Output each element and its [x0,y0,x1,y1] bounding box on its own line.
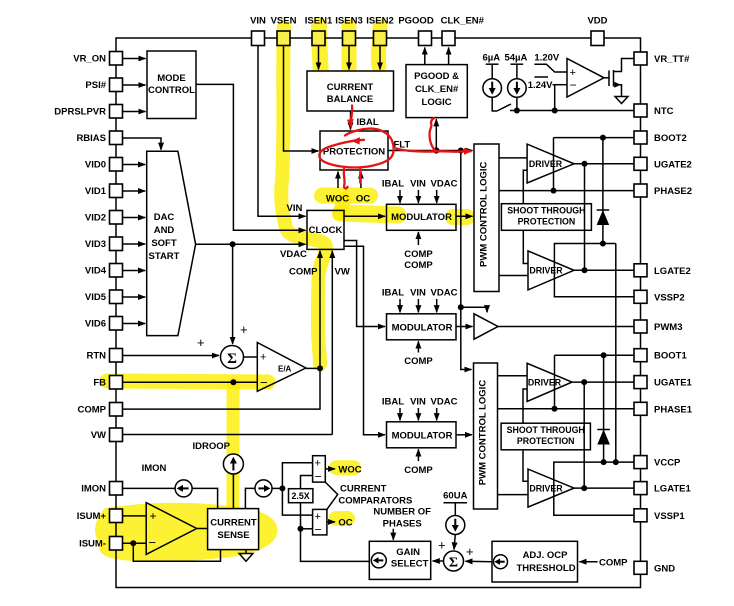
svg-text:+: + [150,509,157,523]
svg-text:NUMBER OF: NUMBER OF [373,507,431,518]
svg-text:ISEN2: ISEN2 [366,15,393,26]
highlight ISEN1 [319,26,321,78]
highlight WOC OC upper labels [322,188,370,204]
wire idroop to current sense box [232,474,234,509]
wire op-amp to current sense box [197,528,208,530]
wire boot2 vertical to phase2 [553,138,555,191]
svg-text:DRIVER: DRIVER [528,377,562,387]
op-amp triangle current sense [146,503,197,555]
COMPARATOR-SECTION [289,456,598,582]
junction phase1 [552,406,558,412]
pin BOOT2 [634,131,647,144]
label PGOOD CLK_EN LOGIC [414,71,459,108]
svg-text:+: + [240,322,248,337]
svg-text:PHASES: PHASES [383,519,422,530]
comparator2 box [313,509,327,535]
svg-text:DPRSLPVR: DPRSLPVR [54,107,106,118]
wire UGATE2 [574,163,634,165]
wire pwmcl2 to driver3 [498,375,528,377]
junction 54uA on NTC line [514,108,520,114]
svg-text:WOC: WOC [338,465,361,476]
svg-text:ISUM+: ISUM+ [77,511,107,522]
pin VID6 [110,317,123,331]
pin BOOT1 [634,349,647,362]
wire chain to comparator2 minus [301,528,313,530]
svg-text:PGOOD: PGOOD [398,15,434,26]
pwm3 buffer triangle [474,314,498,339]
wire COMP into modulator2 bottom [417,341,419,352]
6uA source circle [483,79,502,98]
CLOCK-AND-MODULATORS [307,190,473,461]
wire PSI# to mode control [123,84,146,86]
svg-text:DRIVER: DRIVER [529,483,563,493]
wire FLT up into pgood logic [435,119,437,150]
wire pwmcl1 to driver2 [499,275,528,277]
wire VID2 to dac [123,217,146,219]
highlight OC lower label [336,511,348,526]
svg-text:CURRENT: CURRENT [210,518,257,529]
svg-text:IBAL: IBAL [357,117,379,128]
junction comparator node [279,485,285,491]
PIN-LABELS-RIGHT [654,54,693,574]
shoot through protection2 box [501,423,590,450]
junction vccp riser [613,459,619,465]
switch blade [497,104,511,111]
svg-text:GAIN: GAIN [396,547,420,558]
wire VDAC down to sigma [232,244,234,344]
wire PHASE2 [499,190,634,192]
6uA source arrow [491,82,493,89]
brace current comparators [325,482,337,509]
gain select circle arrow [378,559,384,561]
wire current sense out up [245,488,255,508]
wire LGATE2 [574,269,634,271]
svg-text:ADJ. OCP: ADJ. OCP [523,550,569,561]
pin PHASE2 [634,184,647,197]
labels IBAL VIN VDAC row3 [382,397,458,408]
60UA source arrow [454,519,456,526]
adj ocp threshold box [492,541,578,582]
pin RBIAS [110,131,123,145]
svg-text:VR_TT#: VR_TT# [654,54,690,65]
svg-text:PWM CONTROL LOGIC: PWM CONTROL LOGIC [479,161,490,267]
PINS-TOP [252,31,605,46]
pin FB [110,376,123,390]
svg-text:−: − [315,523,322,537]
mosfet source arrow [614,82,621,88]
wire FLT line protection to pwm control logic [388,150,473,152]
pin VID4 [110,264,123,278]
wire imon into current sense top [192,488,218,508]
adj ocp circle [494,555,508,569]
wire COMP into modulator1 bottom [417,232,419,245]
wire shoot through1 to driver2 [523,230,528,263]
mosfet channel bar [613,70,615,87]
svg-text:1.20V: 1.20V [534,53,559,64]
label COMP COMP under modulator1 [404,249,433,271]
svg-text:AND: AND [154,225,175,236]
svg-text:COMP: COMP [599,558,628,569]
pin LGATE2 [634,264,647,277]
svg-text:IMON: IMON [81,484,106,495]
ground triangle vrtt [615,97,628,104]
pin PGOOD [419,31,432,46]
wire pgood logic to CLK_EN# pin [448,48,450,65]
wire comparator1 out to WOC [325,468,335,470]
wire mode control to clock [196,84,306,230]
pin GND [634,561,647,574]
pin VID2 [110,211,123,225]
comparator1 box [313,456,326,482]
pin ISUM+ [110,509,123,523]
wire LGATE1 [574,487,634,489]
diode1 symbol [597,210,610,225]
svg-text:BOOT1: BOOT1 [654,351,687,362]
svg-text:VID6: VID6 [85,319,106,330]
6uA top bar [486,63,499,65]
sigma2 circle [444,551,464,571]
junction FLT pgood branch [433,147,439,153]
wire ISUM- feedback loop [133,543,220,561]
svg-text:COMP: COMP [404,260,433,271]
diode1 vertical wire [602,138,604,244]
ground stub current sense [245,550,247,554]
buffer source circle [255,480,272,497]
junction e/a output [317,365,323,371]
svg-text:THRESHOLD: THRESHOLD [516,563,575,574]
clock box [307,210,344,249]
wire e/a output [306,367,320,369]
svg-text:COMP: COMP [404,249,433,260]
highlight ISEN3 [342,26,357,74]
mosfet gate wire [604,77,609,79]
junction phase2 [551,188,557,194]
6uA stem [491,64,493,79]
wire sigma2 to gain select [433,560,444,562]
svg-text:IDROOP: IDROOP [193,441,231,452]
svg-text:+: + [315,458,321,470]
RED-LAYER [319,106,470,189]
pin ISEN1 [312,31,325,46]
mosfet gate bar [608,71,610,87]
label SHOOT THROUGH PROTECTION 2 [507,425,585,446]
svg-text:LGATE1: LGATE1 [654,484,691,495]
pin VSEN [277,31,290,46]
svg-text:MODULATOR: MODULATOR [392,322,453,333]
svg-text:PROTECTION: PROTECTION [517,436,575,446]
svg-text:PGOOD &: PGOOD & [414,71,459,82]
junction boot1 diode2 [601,352,607,358]
wire COMP into adj ocp [579,561,597,563]
pin ISUM- [110,537,123,551]
wire node to comparator2 plus [282,488,312,515]
wire DPRSLPVR to mode control [123,111,146,113]
diode1 cathode bar [597,209,610,211]
DRIVER-SECTION-CH1 [474,314,635,516]
svg-text:SELECT: SELECT [391,559,429,570]
highlight clock-to-modulator arrow [341,213,398,215]
54uA bottom stem [516,97,518,110]
ground triangle current sense [239,554,253,562]
svg-text:UGATE2: UGATE2 [654,159,692,170]
junction lgate2 [582,267,588,273]
pin DPRSLPVR [110,105,123,119]
wire modulator2 to pwm3 buffer [456,326,473,328]
junction 1.24V on NTC line [552,108,558,114]
highlight ISEN2 [378,26,380,66]
wire VID5 to dac [123,296,146,298]
svg-text:IBAL: IBAL [382,179,404,190]
wire vccp riser [615,244,617,463]
svg-text:OC: OC [356,194,370,205]
junction VDAC branch [230,241,236,247]
svg-text:E/A: E/A [278,365,292,374]
wire VCCP [554,462,634,515]
wire ISUM+ to op-amp [123,515,147,517]
red ellipse around PROTECTION [319,129,393,168]
adj ocp circle arrow [499,561,505,563]
wire VIN into modulator3 [417,408,419,420]
svg-text:IBAL: IBAL [382,288,404,299]
svg-text:CLK_EN#: CLK_EN# [441,15,485,26]
wire IBAL into modulator1 [399,190,401,203]
e/a triangle [257,343,306,392]
svg-text:PWM3: PWM3 [654,322,683,333]
svg-text:VIN: VIN [250,15,266,26]
wire RBIAS to dac top [123,138,162,150]
svg-text:VW: VW [335,267,350,278]
CURRENT-SENSE-SECTION [123,454,313,561]
pin NTC [634,104,647,117]
wire IBAL current balance to protection [350,111,352,130]
pin VSSP2 [634,290,647,303]
svg-text:WOC: WOC [326,194,349,205]
pin RTN [110,349,123,363]
pin VR_TT# [634,52,647,65]
svg-text:VDAC: VDAC [280,249,307,260]
PIN-LABELS-TOP [250,15,608,26]
wire FLT branch to pwm3 buffer [461,307,487,312]
svg-text:CLOCK: CLOCK [309,225,343,236]
red OC tick [359,169,361,183]
pin COMP [110,403,123,417]
svg-text:VDAC: VDAC [431,179,458,190]
svg-text:VW: VW [91,430,106,441]
wire VDAC into modulator1 [436,190,438,203]
svg-text:VID2: VID2 [85,213,106,224]
wire ISUM- to op-amp [123,542,147,544]
pwm control logic2 box [474,363,498,509]
BLOCKS-TOP-CENTER [307,46,487,370]
wire VSEN pin down to protection [284,46,319,152]
svg-text:SENSE: SENSE [217,530,249,541]
mosfet drain wire to VR_TT# [614,59,635,72]
svg-text:COMP: COMP [404,465,433,476]
svg-text:VID5: VID5 [85,292,107,303]
svg-text:LOGIC: LOGIC [422,97,452,108]
junction boot2 diode1 [600,135,606,141]
svg-text:VDAC: VDAC [431,288,458,299]
svg-text:Σ: Σ [449,556,458,571]
wire IBAL into modulator2 [399,299,401,312]
wire VID3 to dac [123,243,146,245]
wire ISEN1 to current balance [318,46,320,70]
svg-text:RBIAS: RBIAS [76,133,106,144]
modulator2 box [387,314,457,340]
pin ISEN2 [374,31,387,46]
svg-text:START: START [149,251,180,262]
svg-text:−: − [149,535,157,550]
wire RTN to sigma1 [123,355,220,357]
svg-text:+: + [438,538,446,553]
modulator1 box [387,204,457,230]
svg-text:VIN: VIN [410,288,426,299]
svg-text:−: − [260,375,268,390]
pin PSI# [110,78,123,92]
wire ugate2 vertical to lgate2 [584,164,586,270]
buffer arrow right [258,487,265,489]
driver2 triangle [528,251,574,290]
svg-text:PHASE1: PHASE1 [654,404,693,415]
svg-text:COMPARATORS: COMPARATORS [338,496,412,507]
svg-text:BALANCE: BALANCE [327,94,373,105]
junction ISUM- feedback [130,540,136,546]
svg-text:VSSP2: VSSP2 [654,292,685,303]
svg-text:VIN: VIN [287,203,303,214]
highlight WOC lower label [337,460,354,475]
mosfet source wire [614,85,622,96]
svg-text:VDD: VDD [587,15,607,26]
1.24V wire to comparator minus [553,84,568,86]
driver4 triangle [528,469,574,507]
svg-text:VCCP: VCCP [654,458,681,469]
svg-text:1.24V: 1.24V [528,80,553,91]
wire VIN into modulator1 [417,190,419,203]
pin UGATE1 [634,376,647,389]
driver1 triangle [527,144,574,183]
label CURRENT BALANCE [327,82,374,105]
wire adj ocp to sigma2 [465,560,492,562]
mode control box [147,51,196,119]
wire VID6 to dac [123,323,146,325]
junction ugate2 [582,161,588,167]
wire UGATE1 [572,381,634,383]
wire pwmcl1 to driver1 [499,157,527,159]
diode2 vertical wire [603,355,605,462]
label DAC AND SOFT START [149,212,180,262]
pin VIN [252,31,265,46]
diode2 symbol [597,430,610,445]
pin VID0 [110,158,123,172]
6uA bottom stem [492,97,497,111]
svg-text:ISEN1: ISEN1 [305,15,333,26]
red squiggle to PGOOD logic [430,118,437,151]
svg-text:+: + [260,352,266,364]
wire VID1 to dac [123,190,146,192]
junction FB idroop [230,379,236,385]
highlight IDROOP line [227,384,240,512]
highlight FB line [107,381,268,382]
wire VW up into clock [331,251,333,435]
BLOCKS-TOP-LEFT [123,46,319,345]
wire 60UA to sigma2 [454,535,455,550]
2.5X box [289,489,313,503]
svg-text:54µA: 54µA [504,53,527,64]
54uA top bar [511,63,524,65]
idroop current source [223,454,243,474]
wire boot1 vertical to phase1 [554,355,556,409]
red WOC tick [344,169,348,189]
wire IBAL into modulator3 [399,408,401,420]
wire driver3 lower to shoot through2 [523,389,527,423]
54uA source circle [508,79,527,98]
wire COMP pin to e/a output [123,368,321,409]
svg-text:VID1: VID1 [85,186,107,197]
svg-text:IMON: IMON [142,463,167,474]
svg-text:DRIVER: DRIVER [529,159,563,169]
svg-text:PHASE2: PHASE2 [654,186,692,197]
wire VDAC into modulator3 [436,408,438,420]
svg-text:NTC: NTC [654,106,674,117]
svg-text:CLK_EN#: CLK_EN# [415,84,459,95]
wire PWM3 [498,326,634,328]
wire VR_ON to mode control [123,58,146,60]
gain select circle [371,553,386,568]
svg-text:OC: OC [338,518,352,529]
wire pgood logic to PGOOD pin [424,48,426,65]
junction chain to comparator2 minus [298,526,304,532]
shoot through protection1 box [501,204,591,231]
wire BOOT1 [555,354,635,356]
pin ISEN3 [343,31,356,46]
PINS-RIGHT [634,52,647,574]
red arrowhead on ellipse curl [351,137,360,144]
wire pwmcl2 to driver4 [498,494,529,496]
pin VSSP1 [634,509,647,522]
chip border [116,38,641,588]
driver3 triangle [527,363,572,401]
wire FLT down the middle [461,151,472,370]
diode2 cathode bar [597,429,610,431]
DRIVER-SECTION-CH2 [474,135,634,463]
driver2 supply frame [554,244,634,297]
svg-text:VSEN: VSEN [271,15,297,26]
svg-text:ISEN3: ISEN3 [335,15,362,26]
svg-text:VR_ON: VR_ON [73,54,106,65]
imon source circle [175,480,192,497]
pin VR_ON [110,52,123,66]
svg-text:CURRENT: CURRENT [327,82,374,93]
PIN-LABELS-LEFT [54,54,106,550]
label CURRENT SENSE [210,518,257,542]
gain select box [369,541,430,579]
DIAGRAM-LAYER [116,38,641,588]
dac and soft start polygon [147,151,196,335]
54uA source arrow [516,82,518,89]
pgood clk_en logic box [406,65,467,118]
svg-text:ISUM-: ISUM- [79,539,106,550]
svg-text:MODULATOR: MODULATOR [392,430,453,441]
wire PHASE1 [498,408,635,410]
labels IBAL VIN VDAC row2 [382,288,458,299]
svg-text:−: − [315,470,322,484]
wire 2.5X up to comparator1 minus [301,476,313,489]
NTC wire [510,110,634,112]
highlight modulator1 output arrow [453,209,467,225]
modulator3 box [387,422,457,448]
vrtt comparator triangle [567,59,604,98]
wire COMP up into clock [319,251,321,369]
